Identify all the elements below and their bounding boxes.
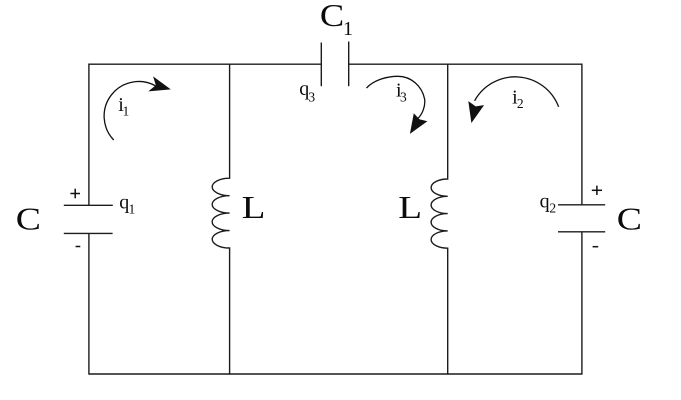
- svg-text:3: 3: [400, 90, 407, 105]
- svg-text:L: L: [398, 189, 422, 225]
- svg-text:q: q: [540, 191, 550, 213]
- current arrow i1 arc: [104, 82, 155, 140]
- wire bottom: [89, 373, 582, 375]
- svg-text:1: 1: [343, 18, 353, 40]
- capacitor C1: [321, 42, 348, 87]
- inductor L (right) with wire: [431, 64, 448, 375]
- svg-text:1: 1: [123, 104, 130, 119]
- wire top-left segment: [89, 63, 321, 65]
- label q1: [119, 191, 135, 216]
- minus sign right: [593, 246, 599, 248]
- current arrow i2 arc: [475, 77, 559, 107]
- svg-text:L: L: [242, 189, 266, 225]
- label C1: [320, 0, 353, 40]
- wire left lower: [88, 233, 90, 374]
- svg-text:1: 1: [129, 201, 136, 216]
- capacitor C (left), plates: [64, 205, 113, 233]
- svg-text:3: 3: [308, 90, 315, 105]
- current arrow i2 head: [468, 101, 484, 123]
- wire top-right segment: [349, 63, 582, 65]
- svg-text:2: 2: [549, 201, 556, 216]
- label i1: [118, 94, 129, 119]
- current arrow i1 head: [148, 76, 171, 91]
- svg-text:C: C: [617, 201, 642, 237]
- label i2: [512, 87, 524, 112]
- capacitor C (right), plates: [558, 205, 605, 232]
- label q3: [299, 78, 315, 105]
- label q2: [540, 191, 556, 216]
- wire right upper: [581, 64, 583, 205]
- minus sign left: [76, 246, 81, 248]
- inductor L (left) with wire: [212, 64, 229, 375]
- current arrow i3 head: [410, 113, 428, 134]
- wire right lower: [581, 232, 583, 375]
- current arrow i3 arc: [367, 76, 425, 118]
- plus sign left: [70, 189, 80, 199]
- plus sign right: [592, 186, 602, 195]
- svg-text:C: C: [320, 0, 344, 33]
- svg-text:2: 2: [517, 96, 524, 111]
- label i3: [396, 79, 407, 104]
- wire left upper: [88, 64, 90, 206]
- svg-text:C: C: [16, 201, 41, 237]
